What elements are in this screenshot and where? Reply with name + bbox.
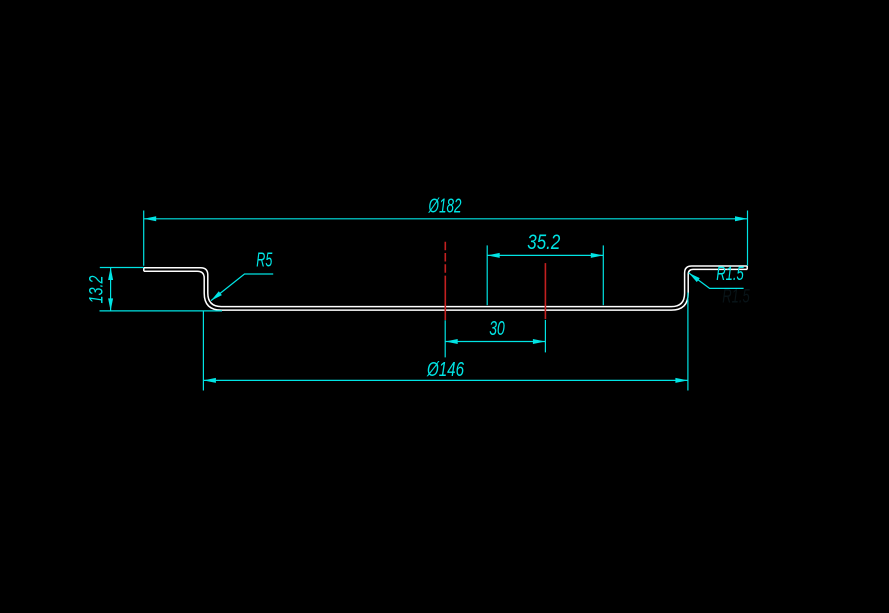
dimension 13.2 top arrowhead (108, 268, 113, 281)
svg-text:35.2: 35.2 (527, 231, 560, 254)
dimension 30 left arrowhead (445, 339, 458, 344)
dimension D182 right extension line (747, 211, 749, 266)
red centerline 2 (544, 263, 546, 319)
dimension 13.2 bottom extension line (100, 310, 223, 312)
dimension 30 dimension line (445, 341, 545, 343)
dimension 35.2 dimension line (487, 254, 603, 256)
dimension 13.2 top extension line (100, 267, 144, 269)
dimension D146 left extension line (202, 312, 204, 391)
svg-text:Ø146: Ø146 (426, 358, 464, 381)
part outline lower surface line (144, 269, 747, 310)
svg-text:R5: R5 (256, 250, 273, 272)
dimension D182 left arrowhead (144, 216, 157, 221)
dimension 30 right extension line (544, 320, 546, 353)
leader R1.5 line (689, 273, 744, 289)
left flange end cap (143, 268, 145, 272)
dimension D146 right arrowhead (675, 378, 688, 383)
svg-text:Ø182: Ø182 (428, 196, 462, 218)
dimension 30 left extension line (444, 320, 446, 357)
dimension D146 dimension line (203, 379, 688, 381)
dimension D146 right extension line (687, 293, 689, 391)
dimension D146 left arrowhead (203, 378, 216, 383)
dimension D182 dimension line (144, 218, 748, 220)
right flange end cap (746, 266, 748, 269)
red centerline 1 solid part (444, 278, 446, 320)
dimension D182 right arrowhead (735, 216, 748, 221)
dimension 35.2 left arrowhead (487, 253, 500, 258)
dimension 35.2 right extension line (602, 245, 604, 305)
red centerline 1 (dashed) (444, 242, 446, 278)
leader R1.5 arrowhead (689, 273, 700, 282)
dimension 35.2 left extension line (486, 245, 488, 305)
part outline upper surface line (144, 266, 747, 307)
svg-text:R1.5: R1.5 (722, 287, 750, 308)
leader R5 line (211, 274, 273, 301)
svg-text:R1.5: R1.5 (716, 263, 744, 285)
leader R5 arrowhead (211, 291, 222, 300)
svg-text:30: 30 (489, 318, 505, 340)
dimension 13.2 bottom arrowhead (108, 298, 113, 311)
dimension 30 right arrowhead (533, 339, 546, 344)
dimension D182 left extension line (143, 211, 145, 266)
dimension 13.2 dimension line (110, 268, 112, 311)
dimension 35.2 right arrowhead (591, 253, 604, 258)
svg-text:13.2: 13.2 (86, 275, 108, 303)
